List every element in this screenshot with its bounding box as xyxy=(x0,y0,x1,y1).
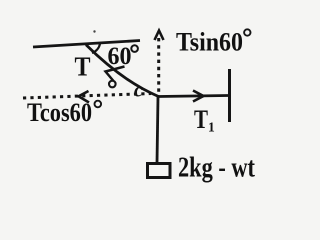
wall xyxy=(228,69,231,122)
svg-text:Tsin60: Tsin60 xyxy=(176,28,243,57)
string T (diagonal from ceiling to node C) xyxy=(86,45,159,97)
svg-text:T: T xyxy=(75,52,91,82)
small loop on string T xyxy=(109,81,116,88)
svg-text:1: 1 xyxy=(208,120,215,135)
dashed horizontal force line Tcos60 xyxy=(23,94,151,99)
ceiling rod xyxy=(33,41,140,48)
angle arc 60 deg xyxy=(92,44,100,53)
arrowhead on string T xyxy=(106,67,125,82)
svg-text:2kg - wt: 2kg - wt xyxy=(178,153,256,184)
svg-text:Tcos60: Tcos60 xyxy=(27,98,92,127)
arrowhead left Tcos60 xyxy=(79,91,90,103)
string T1 to wall xyxy=(159,96,229,97)
weight box 2kg xyxy=(148,164,171,178)
string to weight xyxy=(157,97,158,164)
svg-text:60: 60 xyxy=(108,43,132,70)
dashed vertical force line Tsin60 xyxy=(157,38,160,92)
node C junction xyxy=(157,95,160,98)
arrowhead right on T1 xyxy=(193,91,204,102)
arrowhead up Tsin60 xyxy=(155,31,164,41)
svg-text:c: c xyxy=(134,80,143,102)
svg-text:T: T xyxy=(194,105,208,134)
